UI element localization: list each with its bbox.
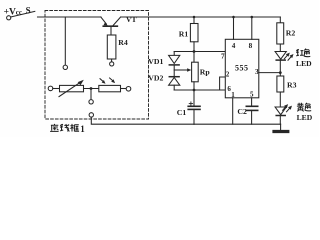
wire photoresistor to right terminal <box>121 88 127 90</box>
dashed enclosure box 1 <box>45 11 149 120</box>
wiper arrow to Rp <box>174 69 188 71</box>
wire tap down <box>90 89 92 100</box>
label dashed-box-1 (CJK strokes) <box>50 124 79 132</box>
svg-text:8: 8 <box>249 42 253 50</box>
svg-text:VT: VT <box>126 15 137 24</box>
svg-text:5: 5 <box>250 90 254 98</box>
svg-text:Rp: Rp <box>200 67 211 76</box>
svg-text:cc: cc <box>16 9 22 17</box>
svg-text:2: 2 <box>226 72 230 79</box>
node +Vcc terminal <box>7 16 11 20</box>
node open terminal tap <box>89 100 93 104</box>
label yellow (CJK strokes) <box>297 103 311 112</box>
wire node line to pin7 <box>174 51 225 53</box>
resistor R1 <box>193 17 195 24</box>
wire R4 bottom <box>111 59 113 62</box>
svg-text:R4: R4 <box>118 38 128 47</box>
svg-text:C1: C1 <box>177 108 187 117</box>
transistor VT <box>101 17 121 35</box>
capacitor C1 <box>193 90 195 106</box>
node open terminal below tap <box>63 65 67 69</box>
wire pin3 output <box>259 72 281 74</box>
wire top rail right segment <box>121 16 280 18</box>
svg-text:R1: R1 <box>179 30 189 39</box>
svg-text:R2: R2 <box>286 28 296 37</box>
svg-text:555: 555 <box>235 64 249 73</box>
wire connector to bottom rail <box>91 117 194 124</box>
LED red <box>275 52 286 60</box>
IC 555 box <box>225 39 258 98</box>
svg-text:4: 4 <box>232 42 236 50</box>
wire pin2 bracket <box>220 77 226 90</box>
svg-text:+V: +V <box>4 7 16 17</box>
C1 polarity plus <box>189 103 192 105</box>
wire pin1 ground <box>232 98 234 124</box>
rheostat box <box>60 85 84 91</box>
rheostat arrow <box>59 82 81 97</box>
svg-text:S: S <box>26 6 31 16</box>
resistor R3 <box>277 76 284 92</box>
wire diode midpoint <box>173 66 175 76</box>
wire pin8 supply <box>251 17 253 39</box>
wire rheostat to photoresistor <box>84 88 99 90</box>
wire top rail left segment <box>38 16 102 18</box>
svg-text:LED: LED <box>296 59 312 68</box>
light arrow 2 <box>110 78 113 81</box>
wire R1 bottom <box>193 42 195 52</box>
wire hanging tap from rail <box>64 17 66 65</box>
wire node line pin2/6 <box>174 89 225 91</box>
wire pin4 supply <box>233 17 235 39</box>
wire LED cathode to node <box>279 60 281 76</box>
resistor R2 <box>279 17 281 23</box>
capacitor C2 <box>251 98 253 106</box>
svg-text:R3: R3 <box>287 81 297 90</box>
light arrow 1 <box>100 79 103 82</box>
svg-text:1: 1 <box>80 124 85 134</box>
svg-text:1: 1 <box>231 91 235 99</box>
label red (CJK strokes) <box>296 49 310 57</box>
LED yellow <box>275 107 286 115</box>
wire LED cathode to rail <box>279 116 281 125</box>
wire bottom rail <box>194 123 281 125</box>
ground <box>280 124 282 130</box>
diode VD1 <box>173 52 175 56</box>
svg-text:7: 7 <box>221 53 225 61</box>
node open terminal below R4 <box>110 62 114 66</box>
switch S blade <box>11 11 35 17</box>
resistor R4 <box>107 35 116 59</box>
potentiometer Rp <box>193 52 195 63</box>
svg-text:VD1: VD1 <box>148 57 163 66</box>
svg-text:VD2: VD2 <box>148 74 163 83</box>
node sensor row left terminal <box>48 86 53 91</box>
photoresistor box <box>99 85 121 91</box>
svg-text:C2: C2 <box>237 107 247 116</box>
wire left terminal to rheostat <box>53 88 60 90</box>
node lower connector terminal <box>89 113 93 117</box>
svg-text:3: 3 <box>255 68 259 76</box>
node junction dot <box>90 87 93 90</box>
diode VD2 <box>169 76 179 78</box>
node sensor row right terminal <box>126 87 131 92</box>
svg-text:LED: LED <box>297 113 313 122</box>
